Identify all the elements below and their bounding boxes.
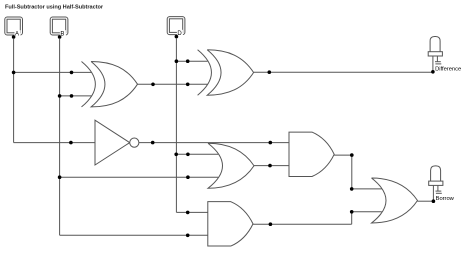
svg-text:A: A xyxy=(15,31,19,37)
svg-text:Borrow: Borrow xyxy=(436,196,455,202)
svg-text:Difference: Difference xyxy=(435,66,461,72)
svg-text:Full-Subtractor using Half-Sub: Full-Subtractor using Half-Subtractor xyxy=(5,5,104,11)
svg-text:D: D xyxy=(177,31,182,37)
